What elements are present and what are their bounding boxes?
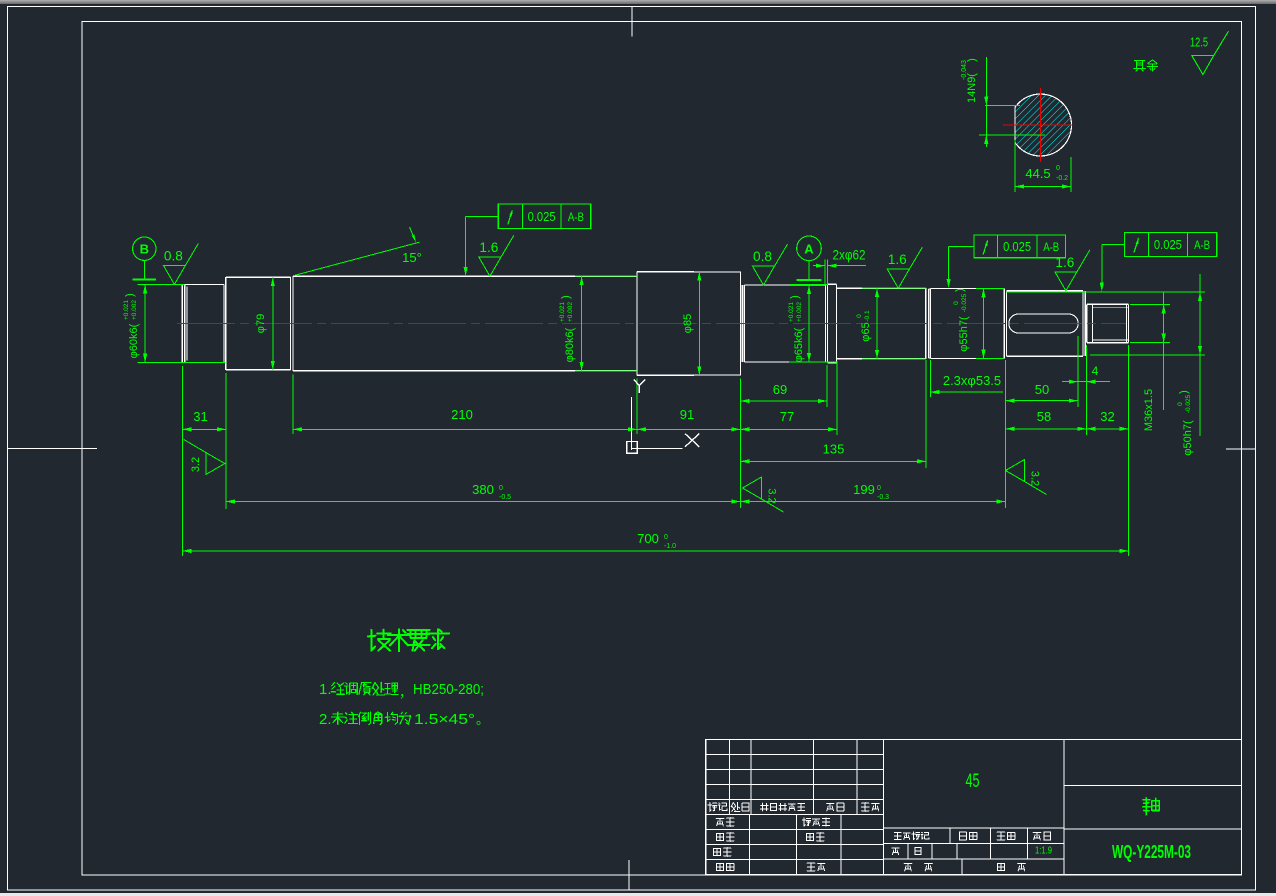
svg-text:0.8: 0.8: [753, 249, 772, 264]
svg-text:): ): [954, 288, 966, 292]
svg-text:3.2: 3.2: [1029, 471, 1041, 486]
svg-text:135: 135: [823, 442, 845, 457]
svg-text:1.: 1.: [319, 681, 332, 698]
svg-text:0.025: 0.025: [1154, 237, 1182, 252]
svg-text:12.5: 12.5: [1190, 35, 1208, 50]
svg-text:2.3xφ53.5: 2.3xφ53.5: [943, 373, 1001, 388]
svg-text:44.5: 44.5: [1025, 166, 1050, 181]
svg-text:1:1.9: 1:1.9: [1035, 845, 1052, 857]
svg-text:0: 0: [877, 485, 881, 492]
svg-text:0: 0: [664, 534, 668, 541]
svg-text:+0.002: +0.002: [567, 302, 574, 322]
svg-text:): ): [124, 293, 136, 297]
svg-text:-0.2: -0.2: [1056, 175, 1068, 182]
svg-text:0: 0: [499, 485, 503, 492]
svg-text:1.5×45°: 1.5×45°: [414, 711, 475, 728]
svg-text:1.6: 1.6: [479, 240, 498, 255]
svg-text:A-B: A-B: [568, 210, 584, 224]
svg-text:91: 91: [680, 407, 694, 422]
svg-text:-1.0: -1.0: [664, 543, 676, 550]
svg-text:。: 。: [476, 712, 489, 727]
svg-text:199: 199: [853, 482, 875, 497]
svg-text:69: 69: [773, 382, 787, 397]
svg-text:2xφ62: 2xφ62: [833, 248, 866, 263]
svg-text:WQ-Y225M-03: WQ-Y225M-03: [1112, 841, 1191, 862]
svg-text:3.2: 3.2: [190, 457, 202, 472]
svg-text:φ50h7(: φ50h7(: [1182, 420, 1194, 456]
svg-text:3.2: 3.2: [766, 488, 778, 503]
svg-text:): ): [560, 295, 572, 299]
svg-text:，: ，: [399, 685, 412, 700]
svg-text:B: B: [140, 242, 149, 257]
svg-text:2.: 2.: [319, 711, 332, 728]
svg-text:A-B: A-B: [1043, 240, 1059, 254]
svg-text:0: 0: [953, 301, 960, 305]
svg-text:-0.043: -0.043: [961, 60, 968, 80]
svg-text:+0.002: +0.002: [131, 300, 138, 320]
svg-text:0.8: 0.8: [164, 248, 183, 263]
svg-text:700: 700: [637, 531, 659, 546]
svg-text:0.025: 0.025: [1003, 239, 1031, 254]
svg-text:M36x1.5: M36x1.5: [1143, 389, 1155, 431]
svg-text:-0.025: -0.025: [1185, 394, 1192, 413]
svg-text:φ80k6(: φ80k6(: [564, 327, 576, 362]
svg-text:-0.3: -0.3: [877, 494, 889, 501]
svg-text:φ60k6(: φ60k6(: [128, 323, 140, 358]
svg-text:-0.1: -0.1: [864, 310, 871, 322]
svg-text:HB250-280;: HB250-280;: [413, 681, 484, 698]
svg-text:φ65k6(: φ65k6(: [793, 327, 805, 362]
svg-text:+0.021: +0.021: [123, 300, 130, 320]
svg-text:210: 210: [451, 407, 473, 422]
svg-text:A-B: A-B: [1194, 238, 1210, 252]
svg-text:77: 77: [780, 409, 794, 424]
svg-text:0: 0: [1056, 165, 1060, 172]
svg-text:1.6: 1.6: [888, 252, 907, 267]
svg-text:A: A: [804, 242, 814, 257]
svg-text:φ79: φ79: [255, 314, 267, 333]
svg-text:380: 380: [472, 482, 494, 497]
svg-text:50: 50: [1035, 382, 1049, 397]
svg-text:15°: 15°: [402, 250, 422, 265]
svg-text:): ): [1178, 390, 1190, 394]
svg-text:+0.021: +0.021: [559, 302, 566, 322]
svg-text:φ55h7(: φ55h7(: [958, 316, 970, 352]
svg-text:): ): [966, 58, 978, 62]
svg-text:4: 4: [1092, 364, 1099, 378]
svg-text:φ65: φ65: [860, 322, 872, 341]
svg-text:): ): [789, 295, 801, 299]
svg-text:-0.025: -0.025: [961, 293, 968, 312]
svg-text:0: 0: [856, 314, 863, 318]
svg-text:45: 45: [966, 771, 980, 792]
svg-text:0: 0: [1177, 402, 1184, 406]
svg-text:31: 31: [193, 409, 207, 424]
svg-text:58: 58: [1037, 409, 1051, 424]
svg-text:-0.5: -0.5: [499, 494, 511, 501]
svg-text:φ85: φ85: [682, 314, 694, 333]
svg-text:32: 32: [1100, 409, 1114, 424]
svg-text:+0.002: +0.002: [796, 302, 803, 322]
svg-text:0.025: 0.025: [528, 209, 556, 224]
svg-text:+0.021: +0.021: [788, 302, 795, 322]
